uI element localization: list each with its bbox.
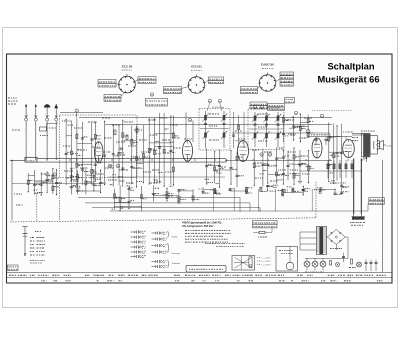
svg-text:Kopfh.: Kopfh. xyxy=(172,237,179,239)
svg-text:Zweitspr.: Zweitspr. xyxy=(171,252,181,255)
svg-text:ZF 5697 kHz: ZF 5697 kHz xyxy=(212,107,225,109)
svg-text:440/70 (gestempelt) bis 1160 P: 440/70 (gestempelt) bis 1160 PQ xyxy=(181,221,221,225)
svg-text:ZFI nachgesetzt / 460 kHz: ZFI nachgesetzt / 460 kHz xyxy=(181,224,214,228)
svg-text:EABC 80: EABC 80 xyxy=(261,63,274,67)
svg-text:Musikgerät 66: Musikgerät 66 xyxy=(317,75,379,85)
svg-text:ECH 81: ECH 81 xyxy=(191,65,202,69)
svg-text:= +225 V: = +225 V xyxy=(263,257,272,259)
svg-text:ECC 85: ECC 85 xyxy=(122,64,133,68)
svg-text:= +215 V: = +215 V xyxy=(263,261,272,263)
svg-text:= +205 V: = +205 V xyxy=(263,264,272,266)
svg-text:Tonband: Tonband xyxy=(172,263,181,265)
svg-text:Schaltplan: Schaltplan xyxy=(327,62,374,72)
svg-text:ZF 5697 MHz: ZF 5697 MHz xyxy=(266,107,279,109)
